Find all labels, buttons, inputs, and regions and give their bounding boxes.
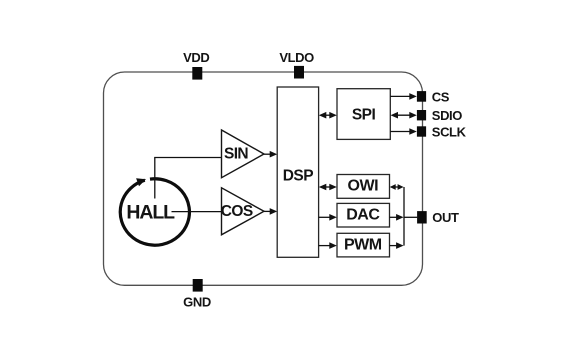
- svg-text:HALL: HALL: [126, 202, 175, 224]
- svg-text:VLDO: VLDO: [279, 50, 314, 65]
- svg-text:DAC: DAC: [346, 207, 380, 224]
- svg-text:OUT: OUT: [432, 210, 459, 225]
- svg-text:SPI: SPI: [352, 107, 376, 124]
- svg-text:SDIO: SDIO: [432, 108, 462, 123]
- svg-text:VDD: VDD: [183, 50, 209, 65]
- svg-text:PWM: PWM: [344, 236, 382, 253]
- svg-text:SCLK: SCLK: [432, 124, 467, 139]
- svg-text:GND: GND: [183, 294, 211, 309]
- svg-text:CS: CS: [432, 89, 450, 104]
- svg-text:DSP: DSP: [283, 167, 314, 184]
- svg-text:COS: COS: [221, 203, 253, 220]
- svg-text:SIN: SIN: [224, 146, 248, 163]
- svg-text:OWI: OWI: [348, 178, 379, 195]
